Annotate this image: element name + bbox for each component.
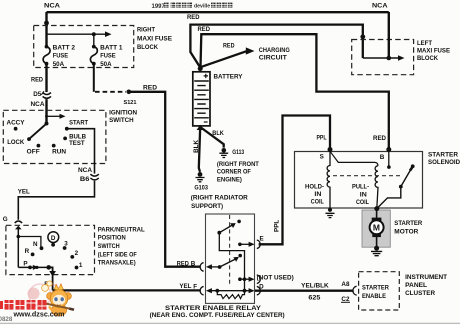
label (RIGHT FRONT CORNER OF ENGINE) bbox=[217, 161, 259, 183]
svg-text:HOLD-: HOLD- bbox=[305, 184, 324, 191]
svg-text:1997: 1997 bbox=[152, 4, 166, 10]
wire NCA into ignition switch bbox=[45, 99, 47, 123]
contact RUN bbox=[52, 144, 56, 148]
svg-text:G113: G113 bbox=[232, 149, 244, 156]
svg-text:IN: IN bbox=[360, 191, 367, 198]
label INSTRUMENT PANEL CLUSTER bbox=[405, 274, 447, 297]
wire pivot to not-used/D rail bbox=[219, 233, 244, 291]
wire RED from S121 to starter enable relay pin B bbox=[129, 92, 201, 267]
svg-text:M: M bbox=[373, 223, 380, 233]
watermark bbox=[0, 281, 74, 319]
svg-text:MAXI FUSE: MAXI FUSE bbox=[417, 47, 450, 54]
pull-in coil bbox=[375, 166, 378, 209]
svg-text:PPL: PPL bbox=[317, 135, 327, 142]
svg-text:STARTER: STARTER bbox=[394, 220, 422, 227]
bottom border line bbox=[0, 322, 460, 324]
wire YEL from E to relay pin F bbox=[53, 289, 201, 291]
relay internals bbox=[206, 215, 255, 299]
label HOLD-IN COIL bbox=[305, 184, 324, 206]
svg-text:E: E bbox=[260, 235, 264, 242]
node ignition pivot bbox=[45, 122, 49, 126]
svg-text:YEL/BLK: YEL/BLK bbox=[301, 282, 329, 289]
svg-text:1: 1 bbox=[79, 262, 83, 269]
svg-text:INSTRUMENT: INSTRUMENT bbox=[405, 274, 447, 281]
svg-text:D: D bbox=[259, 283, 264, 290]
svg-text:IN: IN bbox=[314, 191, 321, 198]
svg-text:LOCK: LOCK bbox=[7, 139, 24, 146]
svg-text:RED: RED bbox=[187, 14, 200, 21]
label BATT 2 FUSE 50A bbox=[53, 44, 76, 68]
contact B fixed bbox=[388, 151, 390, 166]
svg-text:RED: RED bbox=[31, 76, 43, 83]
node B terminal bbox=[386, 147, 391, 152]
connector B6 inline bbox=[90, 174, 98, 180]
svg-text:50A: 50A bbox=[100, 61, 112, 68]
svg-text:ENABLE: ENABLE bbox=[362, 293, 386, 300]
ground at starter motor bbox=[371, 246, 382, 256]
contact LOCK bbox=[27, 137, 31, 141]
wire branch arrow inside ignition switch bbox=[47, 115, 62, 117]
label STARTER ENABLE bbox=[362, 284, 389, 300]
svg-text:RED: RED bbox=[143, 84, 157, 91]
label STARTER SOLENOID bbox=[428, 152, 460, 166]
connector D5 inline bbox=[41, 91, 51, 98]
connector starter enable bbox=[353, 286, 357, 295]
connector pin NOT USED bbox=[257, 275, 260, 284]
svg-text:SWITCH: SWITCH bbox=[109, 117, 134, 124]
svg-text:(NOT USED): (NOT USED) bbox=[257, 275, 294, 282]
svg-text:MAXI FUSE: MAXI FUSE bbox=[137, 35, 172, 42]
svg-text:www.dzsc.com: www.dzsc.com bbox=[13, 310, 65, 319]
contact START bbox=[65, 127, 69, 131]
label IGNITION SWITCH bbox=[109, 110, 137, 124]
svg-text:G: G bbox=[3, 216, 8, 223]
svg-text:BLOCK: BLOCK bbox=[137, 44, 158, 51]
svg-text:STARTER: STARTER bbox=[362, 284, 389, 291]
svg-text:(RIGHT RADIATOR: (RIGHT RADIATOR bbox=[191, 195, 248, 202]
contact 1 bbox=[75, 266, 79, 270]
svg-text:YEL: YEL bbox=[18, 189, 30, 196]
wire BLK battery to G113 bbox=[200, 127, 224, 148]
svg-text:COIL: COIL bbox=[356, 199, 369, 206]
contact R bbox=[31, 253, 35, 257]
svg-text:PPL: PPL bbox=[273, 220, 280, 232]
svg-text:PULL-: PULL- bbox=[352, 184, 369, 191]
connector pin D bbox=[257, 286, 260, 295]
svg-text:LEFT: LEFT bbox=[417, 40, 432, 47]
node junction above right maxi fuse block bbox=[44, 21, 49, 26]
label PULL-IN COIL bbox=[352, 184, 369, 206]
label (RIGHT RADIATOR SUPPORT) bbox=[191, 195, 248, 210]
hold-in coil bbox=[327, 151, 330, 208]
fuse BATT 2 50A bbox=[43, 45, 50, 66]
svg-text:(RIGHT FRONT: (RIGHT FRONT bbox=[217, 161, 259, 168]
svg-text:G103: G103 bbox=[194, 184, 208, 191]
svg-text:S121: S121 bbox=[124, 100, 138, 106]
wire RED battery to left maxi fuse block bbox=[190, 25, 362, 68]
wire NCA right vertical into fuse block bbox=[388, 12, 390, 58]
watermark mascot bbox=[42, 281, 74, 316]
wire YEL/BLK relay D to starter enable bbox=[255, 290, 353, 292]
connector pin B bbox=[200, 263, 203, 272]
svg-text:SUPPORT): SUPPORT) bbox=[191, 203, 223, 210]
svg-text:CHARGING: CHARGING bbox=[259, 47, 290, 54]
node S121 splice bbox=[127, 90, 132, 95]
wire dashed from BATT 1 fuse to S121 bbox=[94, 64, 126, 92]
wire START to B6 bbox=[67, 129, 95, 174]
svg-text:PANEL: PANEL bbox=[405, 282, 427, 289]
svg-text:OFF: OFF bbox=[27, 149, 40, 156]
mechanical link dashed bbox=[229, 215, 231, 286]
park/neutral position switch dashed box bbox=[6, 225, 95, 274]
svg-text:NCA: NCA bbox=[44, 3, 61, 10]
svg-text:(NEAR ENG. COMPT. FUSE/RELAY C: (NEAR ENG. COMPT. FUSE/RELAY CENTER) bbox=[150, 312, 285, 319]
svg-text:BLK: BLK bbox=[193, 140, 200, 153]
svg-text:NCA: NCA bbox=[78, 167, 92, 174]
label LEFT MAXI FUSE BLOCK bbox=[417, 40, 450, 62]
label CHARGING CIRCUIT bbox=[259, 47, 290, 62]
pin E row bbox=[238, 243, 242, 247]
wire RED to charging circuit with arrow bbox=[202, 47, 255, 66]
svg-text:POSITION: POSITION bbox=[98, 235, 126, 242]
left maxi fuse block dashed box bbox=[352, 40, 414, 75]
fuse BATT 1 50A bbox=[90, 45, 97, 66]
svg-text:TEST: TEST bbox=[69, 140, 85, 147]
node splice above left maxi fuse block bbox=[360, 34, 365, 39]
title text (chinese) bbox=[152, 3, 233, 10]
svg-text:0828: 0828 bbox=[0, 316, 13, 323]
svg-text:NCA: NCA bbox=[372, 3, 388, 10]
connector pin F bbox=[200, 286, 203, 295]
label C2 underlined bbox=[341, 296, 350, 303]
svg-text:CORNER OF: CORNER OF bbox=[217, 169, 251, 176]
node solenoid to motor junction bbox=[374, 206, 379, 211]
label BATT 1 FUSE 50A bbox=[100, 44, 123, 68]
svg-text:YEL: YEL bbox=[179, 283, 191, 290]
svg-text:deville: deville bbox=[194, 4, 210, 10]
svg-text:CLUSTER: CLUSTER bbox=[405, 290, 435, 297]
label RIGHT MAXI FUSE BLOCK bbox=[137, 26, 172, 51]
svg-text:BATT 2: BATT 2 bbox=[53, 44, 76, 51]
svg-text:START: START bbox=[69, 119, 88, 126]
contact N bbox=[40, 246, 44, 250]
wire YEL from B6 to park/neutral switch bbox=[18, 181, 94, 220]
svg-text:B: B bbox=[191, 260, 196, 267]
battery negative terminal arrow bbox=[197, 125, 204, 130]
pin F to D row bbox=[206, 288, 212, 293]
watermark red text bbox=[0, 300, 47, 310]
wire inside left maxi fuse block with arrow bbox=[363, 55, 405, 61]
svg-text:R: R bbox=[25, 248, 30, 255]
relay switch blade top bbox=[217, 231, 221, 235]
svg-text:B6: B6 bbox=[80, 176, 90, 183]
contact BULB TEST bbox=[63, 137, 67, 141]
svg-text:FUSE: FUSE bbox=[100, 53, 116, 60]
svg-text:MOTOR: MOTOR bbox=[394, 229, 418, 236]
starter motor M bbox=[370, 209, 384, 246]
wire NCA top bus bbox=[47, 11, 389, 13]
svg-text:ACCY: ACCY bbox=[7, 119, 26, 126]
svg-text:RED: RED bbox=[177, 260, 189, 267]
svg-text:3: 3 bbox=[64, 240, 68, 247]
svg-text:TRANSAXLE): TRANSAXLE) bbox=[98, 259, 136, 266]
svg-text:BLK: BLK bbox=[212, 130, 224, 137]
svg-text:RED: RED bbox=[223, 42, 235, 49]
park/neutral internals bbox=[17, 229, 83, 291]
node common pivot bbox=[46, 265, 51, 270]
svg-text:(LEFT SIDE OF: (LEFT SIDE OF bbox=[98, 252, 137, 259]
starter enable dashed box bbox=[359, 272, 400, 310]
wire stub to BATT 1 fuse bbox=[93, 34, 95, 46]
svg-text:CIRCUIT: CIRCUIT bbox=[259, 55, 287, 62]
wire RED from BATT 2 fuse down to ignition switch bbox=[45, 64, 47, 92]
wire left feed to BATT fuses bbox=[45, 12, 47, 46]
contact 3 bbox=[63, 246, 67, 250]
svg-text:S: S bbox=[320, 153, 324, 160]
svg-text:RED: RED bbox=[373, 135, 386, 142]
solenoid internals bbox=[327, 151, 415, 208]
ignition switch dashed box bbox=[3, 110, 106, 163]
svg-text:D: D bbox=[51, 235, 56, 242]
connector G at park/neutral switch bbox=[15, 221, 22, 229]
switch blade to LOCK bbox=[29, 123, 47, 139]
svg-text:2: 2 bbox=[75, 250, 79, 257]
svg-text:RUN: RUN bbox=[52, 149, 66, 156]
svg-text:625: 625 bbox=[308, 294, 321, 301]
svg-text:RED: RED bbox=[198, 26, 211, 33]
node S terminal bbox=[328, 147, 333, 152]
svg-text:B: B bbox=[380, 154, 385, 161]
svg-text:A8: A8 bbox=[341, 281, 350, 288]
svg-text:RIGHT: RIGHT bbox=[137, 26, 155, 33]
svg-text:D5: D5 bbox=[33, 91, 41, 98]
svg-text:P: P bbox=[23, 261, 27, 268]
svg-text:NCA: NCA bbox=[31, 101, 45, 108]
watermark stamp bbox=[28, 284, 59, 306]
node junction NCA vertical at fuse rail bbox=[387, 56, 392, 61]
ground G113 bbox=[219, 148, 228, 158]
contact P with wiper arrow bbox=[18, 266, 48, 268]
label PARK/NEUTRAL POSITION SWITCH bbox=[98, 227, 145, 267]
svg-text:SWITCH: SWITCH bbox=[98, 243, 120, 250]
wire S to pull-in coil bbox=[330, 151, 378, 166]
svg-text:BLOCK: BLOCK bbox=[417, 55, 438, 62]
solenoid switch blade bbox=[399, 185, 403, 189]
resistor bbox=[215, 289, 219, 293]
label STARTER MOTOR bbox=[394, 220, 422, 236]
svg-text:F: F bbox=[193, 283, 197, 290]
svg-text:N: N bbox=[33, 241, 38, 248]
wire BLK battery to G103 bbox=[199, 127, 200, 172]
svg-text:ENGINE): ENGINE) bbox=[217, 176, 242, 183]
pin B row with blade bbox=[206, 264, 212, 269]
svg-text:SOLENOID: SOLENOID bbox=[428, 159, 460, 166]
svg-text:IGNITION: IGNITION bbox=[109, 110, 137, 117]
contact ACCY bbox=[14, 127, 18, 131]
starter motor housing bbox=[362, 210, 390, 247]
contact OFF bbox=[37, 144, 41, 148]
wire feed rail inside fuse block with arrow bbox=[47, 31, 112, 37]
svg-text:COIL: COIL bbox=[311, 199, 324, 206]
starter solenoid box bbox=[295, 152, 423, 209]
wire branch to N contact bbox=[18, 237, 41, 248]
ignition switch internals bbox=[7, 114, 89, 156]
wire blade pivot to motor node bbox=[377, 187, 401, 209]
wire to E terminal with exit arrow bbox=[49, 267, 53, 290]
node junction to BATT 1 fuse bbox=[92, 32, 96, 36]
mechanical link dashed bbox=[333, 175, 401, 177]
svg-text:BATT 1: BATT 1 bbox=[100, 44, 123, 51]
svg-text:STARTER: STARTER bbox=[428, 152, 458, 159]
position indicator D circle bbox=[48, 232, 59, 243]
ground at hold-in coil bbox=[326, 208, 335, 218]
connector pin E bbox=[257, 240, 260, 249]
svg-text:BATTERY: BATTERY bbox=[214, 74, 244, 81]
ground G103 bbox=[196, 172, 205, 182]
contact 2 bbox=[70, 255, 74, 259]
wire RED battery to starter solenoid B bbox=[201, 34, 389, 149]
svg-text:50A: 50A bbox=[53, 61, 65, 68]
svg-text:PARK/NEUTRAL: PARK/NEUTRAL bbox=[98, 227, 145, 234]
starter enable relay box bbox=[206, 214, 255, 303]
battery bbox=[193, 72, 210, 126]
wire G feed inside bbox=[17, 229, 19, 268]
wire PPL relay E to solenoid S bbox=[259, 116, 330, 245]
svg-text:FUSE: FUSE bbox=[53, 53, 68, 60]
node battery positive terminal bbox=[198, 66, 203, 71]
pin NOT USED row bbox=[238, 277, 242, 281]
right maxi fuse block dashed box bbox=[34, 26, 134, 68]
